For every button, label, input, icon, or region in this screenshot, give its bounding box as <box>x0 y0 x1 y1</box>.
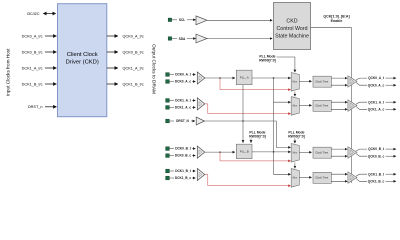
wire QCK0_B_t out <box>356 149 367 151</box>
wire DCK0_A bypass (red) to mux A0 <box>220 78 291 90</box>
wire DCK1_B_t <box>169 170 174 172</box>
svg-text:Mux: Mux <box>293 104 298 107</box>
svg-text:Mux: Mux <box>293 151 298 154</box>
wire PLL_B output to mux B1 <box>274 152 291 174</box>
mux M_A1 <box>291 97 299 116</box>
wire DCK0_A input <box>45 35 56 37</box>
wire DRST to PLL_A reset <box>242 85 244 121</box>
svg-text:DCK1_B_t: DCK1_B_t <box>175 169 192 173</box>
label PLL Mode RW00[7:0] (bank A) <box>259 54 276 62</box>
svg-text:DCK0_B_t: DCK0_B_t <box>175 147 192 151</box>
svg-text:QCK1_B_t/c: QCK1_B_t/c <box>123 82 144 86</box>
node DCK1_A_c <box>166 106 192 110</box>
svg-text:PLL_A: PLL_A <box>240 76 249 80</box>
svg-text:SCL: SCL <box>179 18 185 22</box>
wire QCK0_A_t out <box>356 78 367 80</box>
buffer U7 (DCK1_B receiver) <box>197 169 205 181</box>
wire QCK1_A_c out <box>356 107 367 110</box>
svg-text:DCK0_B_c: DCK0_B_c <box>175 154 192 158</box>
svg-text:QCK1_A_c: QCK1_A_c <box>368 107 385 111</box>
svg-text:RW00[7:0]: RW00[7:0] <box>288 135 305 139</box>
svg-text:DCK0_A_t/c: DCK0_A_t/c <box>22 34 43 38</box>
wire QCK1_B_c arrow <box>386 180 396 182</box>
svg-text:I3C/I2C: I3C/I2C <box>27 12 40 16</box>
label PLL Mode RW00[7:0] (PLL_B) <box>249 131 266 139</box>
block PLL_A <box>236 70 252 85</box>
wire DCK0_B bypass (red) to mux B0 <box>220 152 291 161</box>
block clock tree B1 <box>313 172 331 183</box>
wire clock tree B0 to driver t <box>331 148 347 150</box>
wire QCK1_B_c out <box>356 179 367 182</box>
wire mux A1 out <box>299 104 311 106</box>
wire DCK1_A bypass (red) to mux A1 <box>205 104 291 114</box>
svg-text:SDA: SDA <box>179 37 186 41</box>
node DCK0_A_c <box>166 80 192 84</box>
wire QCK0_A_c out <box>356 83 367 86</box>
junction DCK0_B bypass tap <box>219 151 221 153</box>
svg-text:QCK1_A_t/c: QCK1_A_t/c <box>123 66 144 70</box>
node DCK1_A_t <box>166 99 192 103</box>
wire mux B0 out <box>299 151 311 153</box>
junction PLL_A output tap <box>273 77 275 79</box>
node DCK1_B_c <box>166 176 192 180</box>
wire DRST to PLL_B reset <box>242 121 244 143</box>
svg-text:DCK0_A_c: DCK0_A_c <box>175 80 192 84</box>
svg-text:Clock Tree: Clock Tree <box>315 79 328 83</box>
wire DRST to bank B branch <box>276 121 290 147</box>
wire DCK0_B_c <box>169 155 174 157</box>
wire QCK1_A_t arrow <box>386 101 396 103</box>
block PLL_B <box>236 144 252 159</box>
wire QCK1_A output <box>107 67 118 69</box>
block U_CKD: Client Clock Driver <box>58 4 107 117</box>
wire QCK0_A_c arrow <box>386 84 396 86</box>
svg-text:QCK1_A_t: QCK1_A_t <box>368 100 385 104</box>
wire QCK0_B_t arrow <box>386 148 396 150</box>
wire DCK0_A_c <box>169 81 174 83</box>
mux M_A0 <box>291 73 299 92</box>
label QCK[1:0]_[B:A] Enable <box>323 15 349 23</box>
buffer U8 (QCK0_A output driver) <box>348 76 357 87</box>
wire DCK0_A buffer to PLL_A <box>205 77 235 79</box>
svg-text:QCK1_B_c: QCK1_B_c <box>368 179 385 183</box>
wire SCL buffer to state machine <box>207 19 272 21</box>
wire QCK1_A_c arrow <box>386 108 396 110</box>
svg-text:Driver (CKD): Driver (CKD) <box>66 60 99 66</box>
wire DCK1_B bypass (red) to mux B1 <box>205 175 291 186</box>
svg-text:QCK0_B_c: QCK0_B_c <box>368 154 385 158</box>
node DCK0_A_t <box>166 73 192 77</box>
svg-text:QCK0_A_t/c: QCK0_A_t/c <box>123 34 144 38</box>
svg-text:DCK1_A_t/c: DCK1_A_t/c <box>22 66 43 70</box>
wire QCK1_B output <box>107 83 118 85</box>
node DCK1_B_t <box>166 169 192 173</box>
wire DCK1_B_c <box>169 177 174 179</box>
wire QCK1_B_t arrow <box>386 173 396 175</box>
wire QCK0_B_c arrow <box>386 155 396 157</box>
wire PLL_A output to mux A0 <box>252 77 291 79</box>
wire DCK0_B input <box>45 51 56 53</box>
wire DCK0_B buffer to PLL_B <box>205 151 235 153</box>
buffer U4 (DCK1_A receiver) <box>197 98 205 110</box>
svg-text:DCK1_A_t: DCK1_A_t <box>175 99 192 103</box>
svg-text:DCK0_A_t: DCK0_A_t <box>175 73 192 77</box>
svg-text:QCK0_A_c: QCK0_A_c <box>368 83 385 87</box>
svg-text:Clock Tree: Clock Tree <box>315 150 328 154</box>
svg-text:DRST_n: DRST_n <box>28 105 43 109</box>
wire PLL_A output to mux A1 <box>274 78 291 102</box>
svg-text:Mux: Mux <box>293 176 298 179</box>
wire SDA buffer to state machine <box>207 38 272 40</box>
junction PLL_B output tap <box>273 151 275 153</box>
wire QCK0_A output <box>107 35 118 37</box>
mux M_B1 <box>291 169 299 188</box>
wire DRST_N <box>169 120 174 122</box>
svg-text:QCK0_B_t/c: QCK0_B_t/c <box>123 50 144 54</box>
mux M_B0 <box>291 144 299 163</box>
node DRST_N <box>166 119 190 123</box>
wire PLL mode B to mux B0 select <box>294 138 296 143</box>
wire mux B select continuation <box>294 163 296 169</box>
wire mux A select continuation <box>294 92 296 97</box>
wire QCK0_B_c out <box>356 154 367 157</box>
buffer U3 (DCK0_A receiver) <box>197 72 205 84</box>
svg-text:CKD: CKD <box>286 18 297 24</box>
wire DCK1_B input <box>45 83 56 85</box>
wire clock tree B1 to driver c <box>331 180 347 182</box>
svg-text:DCK1_B_c: DCK1_B_c <box>175 176 192 180</box>
wire clock tree A0 to driver c <box>331 84 347 86</box>
svg-text:Control Word: Control Word <box>276 26 307 32</box>
wire PLL mode to PLL_B <box>250 138 252 142</box>
wire DCK0_B_t <box>169 148 174 150</box>
wire enable net <box>311 28 352 183</box>
wire DCK0_A_t <box>169 74 174 76</box>
svg-text:PLL_B: PLL_B <box>240 149 249 153</box>
wire clock tree A0 to driver t <box>331 77 347 79</box>
svg-text:Client Clock: Client Clock <box>67 52 98 58</box>
block clock tree A1 <box>313 100 331 111</box>
buffer U6 (DCK0_B receiver) <box>197 146 205 158</box>
wire clock tree B0 to driver c <box>331 155 347 157</box>
wire DCK1_A_t <box>169 99 174 101</box>
wire QCK1_A_t out <box>356 102 367 104</box>
svg-text:DCK1_B_t/c: DCK1_B_t/c <box>22 82 43 86</box>
wire QCK0_A_t arrow <box>386 77 396 79</box>
buffer U2 (SDA) <box>196 34 207 43</box>
wire clock tree A1 to driver c <box>331 108 347 110</box>
svg-text:RW00[7:0]: RW00[7:0] <box>259 58 276 62</box>
buffer U5 (DRST_N) <box>196 117 204 125</box>
svg-text:Input Clocks from Host: Input Clocks from Host <box>6 48 11 96</box>
svg-text:QCK1_B_t: QCK1_B_t <box>368 172 385 176</box>
wire QCK0_B output <box>107 51 118 53</box>
svg-text:Clock Tree: Clock Tree <box>315 103 328 107</box>
svg-text:DCK0_B_t/c: DCK0_B_t/c <box>22 50 43 54</box>
wire clock tree A1 to driver t <box>331 101 347 103</box>
block U_SM: CKD Control Word State Machine <box>274 3 311 50</box>
svg-text:DRST_N: DRST_N <box>176 119 189 123</box>
wire clock tree B1 to driver t <box>331 173 347 175</box>
svg-text:DCK1_A_c: DCK1_A_c <box>175 106 192 110</box>
junction DRST tap <box>242 120 244 122</box>
wire SDA to buffer <box>172 38 177 40</box>
node DCK0_B_t <box>166 147 192 151</box>
svg-text:Mux: Mux <box>293 80 298 83</box>
buffer U1 (SCL) <box>196 16 207 25</box>
buffer U11 (QCK1_B output driver) <box>348 172 357 183</box>
wire mux A0 out <box>299 80 311 82</box>
wire QCK1_B_t out <box>356 174 367 176</box>
svg-text:QCK0_B_t: QCK0_B_t <box>368 147 385 151</box>
wire PLL_B output to mux B0 <box>252 151 291 153</box>
svg-text:Enable: Enable <box>331 19 343 23</box>
wire DCK1_A_c <box>169 106 174 108</box>
svg-text:Output Clocks to DRAM: Output Clocks to DRAM <box>151 44 156 94</box>
label PLL Mode RW00[7:0] (bank B muxes) <box>288 131 305 139</box>
node DCK0_B_c <box>166 154 192 158</box>
wire PLL mode A to mux selects <box>277 57 295 72</box>
wire DRST net <box>204 120 276 122</box>
buffer U10 (QCK0_B output driver) <box>348 147 357 158</box>
wire I3C/I2C bidirectional <box>44 13 56 15</box>
node SCL <box>168 18 185 22</box>
buffer U9 (QCK1_A output driver) <box>348 100 357 111</box>
block clock tree A0 <box>313 76 331 87</box>
wire mux B1 out <box>299 176 311 178</box>
node SDA <box>168 37 186 41</box>
svg-text:Clock Tree: Clock Tree <box>315 175 328 179</box>
junction DCK0_A bypass tap <box>219 77 221 79</box>
svg-text:QCK0_A_t: QCK0_A_t <box>368 76 385 80</box>
wire DRST_n input <box>45 106 56 108</box>
block clock tree B0 <box>313 147 331 158</box>
svg-text:State Machine: State Machine <box>275 33 309 39</box>
wire DCK1_A input <box>45 67 56 69</box>
wire vertical bus continuation <box>273 102 275 152</box>
svg-text:RW00[7:0]: RW00[7:0] <box>249 135 266 139</box>
wire SCL to buffer <box>172 19 177 21</box>
